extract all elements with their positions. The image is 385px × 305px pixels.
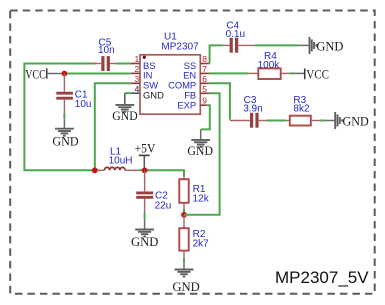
node junction L1/+5V/C2 [142, 167, 148, 173]
op IC U1 MP2307 body [140, 31, 200, 114]
pin 4 GND [125, 84, 164, 104]
wire C3 to R3 [267, 120, 286, 122]
wire COMP net down to C3 [210, 83, 230, 119]
svg-text:10uH: 10uH [109, 156, 133, 167]
svg-text:GND: GND [316, 38, 343, 53]
pin 1 marker dot [143, 56, 146, 59]
pin 6 COMP [168, 74, 210, 91]
wire EN net to R4 [210, 72, 249, 74]
pin 3 SW [131, 74, 158, 91]
wire C4 to GND port [255, 44, 299, 46]
svg-text:GND: GND [187, 143, 213, 158]
svg-text:8k2: 8k2 [293, 104, 310, 115]
svg-text:VCC: VCC [306, 66, 329, 81]
node junction SW/L1 [92, 167, 98, 173]
svg-text:MP2307: MP2307 [161, 41, 199, 52]
svg-text:0.1u: 0.1u [226, 29, 245, 40]
svg-text:8: 8 [202, 54, 207, 64]
svg-text:MP2307_5V: MP2307_5V [275, 268, 369, 287]
svg-text:4: 4 [135, 84, 140, 94]
wire SW net: C5 left to left rail down to bottom row [24, 64, 98, 171]
svg-text:2: 2 [134, 64, 139, 74]
svg-text:6: 6 [202, 74, 207, 84]
svg-text:GND: GND [143, 90, 164, 101]
svg-text:100k: 100k [258, 60, 281, 71]
ground symbol below C1 [52, 129, 78, 149]
svg-text:12k: 12k [193, 194, 210, 205]
svg-text:GND: GND [343, 114, 369, 129]
svg-text:10n: 10n [98, 45, 115, 56]
GND power port right of R3 [325, 112, 368, 129]
node junction R1/R2/FB [181, 212, 187, 218]
wire R4 to VCC port [289, 72, 294, 74]
svg-text:3.9n: 3.9n [243, 104, 262, 115]
pin 5 FB [184, 84, 209, 101]
resistor R1 [179, 175, 209, 215]
capacitor C3 [230, 95, 267, 128]
resistor R4 [249, 51, 290, 79]
+5V power symbol [135, 140, 156, 168]
svg-text:GND: GND [112, 108, 137, 123]
svg-text:5: 5 [202, 84, 207, 94]
pin 8 SS [184, 54, 210, 71]
wire EXP net [201, 105, 210, 129]
wire R3 to GND port [320, 120, 326, 122]
svg-text:1: 1 [134, 54, 139, 64]
pin 7 EN [183, 64, 209, 81]
inductor L1 [97, 146, 138, 170]
capacitor C4 [223, 20, 255, 52]
resistor R2 [179, 215, 209, 269]
wire VCC to IN pin2 [63, 73, 131, 75]
svg-text:EXP: EXP [177, 100, 196, 111]
svg-text:+5V: +5V [135, 140, 156, 155]
svg-text:3: 3 [134, 74, 139, 84]
wire SS net to C4 [210, 45, 223, 63]
ground symbol below EXP [187, 140, 213, 158]
svg-text:9: 9 [202, 96, 207, 106]
pin 1 BS [131, 54, 156, 71]
pin 2 IN [131, 64, 153, 81]
svg-text:GND: GND [52, 133, 78, 148]
ground symbol below C2 [131, 230, 158, 250]
wire SW pin3 horizontal [95, 83, 131, 170]
svg-text:GND: GND [131, 234, 158, 249]
VCC port right [295, 66, 330, 81]
GND power port right of C4 [298, 37, 343, 54]
svg-text:2k7: 2k7 [193, 239, 210, 250]
pin 9 EXP [177, 96, 207, 111]
svg-text:GND: GND [172, 279, 199, 294]
svg-text:22u: 22u [155, 200, 172, 211]
wire FB net [184, 93, 220, 215]
ground symbol below R2 [172, 270, 199, 295]
resistor R3 [285, 95, 319, 126]
svg-text:10u: 10u [75, 99, 92, 110]
VCC port left [25, 67, 62, 82]
svg-text:7: 7 [202, 64, 207, 74]
ground symbol below pin 4 [112, 105, 137, 123]
wire L1 out to R1 top [139, 170, 185, 176]
capacitor C1 [56, 74, 91, 129]
svg-text:VCC: VCC [25, 67, 46, 82]
capacitor C2 [136, 170, 171, 229]
capacitor C5 [92, 38, 131, 72]
node junction VCC/C1 [62, 71, 68, 77]
